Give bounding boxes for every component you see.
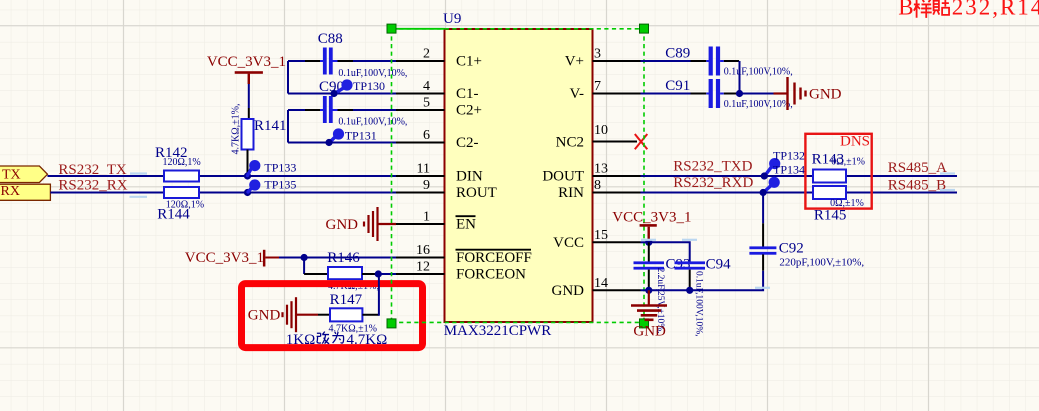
svg-text:C94: C94	[706, 257, 732, 273]
wire row6	[288, 142, 396, 144]
port RX	[0, 184, 50, 200]
wire R141 to DIN row	[247, 150, 249, 177]
svg-text:C1+: C1+	[456, 54, 482, 70]
svg-text:FORCEOFF: FORCEOFF	[456, 250, 532, 266]
wire row13 DOUT to RS485_A	[641, 175, 958, 177]
wire row11 DIN	[48, 175, 397, 177]
op-amp U9 IC body MAX3221CPWR	[445, 29, 593, 322]
svg-text:GND: GND	[248, 307, 281, 323]
junction rail C94	[686, 287, 693, 294]
svg-text:C1-: C1-	[456, 86, 479, 102]
svg-text:GND: GND	[633, 324, 666, 340]
svg-text:GND: GND	[809, 87, 842, 103]
svg-text:U9: U9	[443, 11, 461, 27]
testpoint TP134	[760, 163, 806, 197]
pin 14 GND	[552, 276, 641, 299]
wire row16 to pin16	[279, 257, 396, 259]
junction C89/C91	[736, 90, 743, 97]
capacitor C90	[319, 79, 407, 128]
svg-text:VCC: VCC	[553, 235, 584, 251]
svg-text:0.1uF,100V,10%,: 0.1uF,100V,10%,	[338, 68, 407, 79]
wire row5 left of C90	[288, 109, 305, 111]
wire R146 right to row12	[362, 273, 378, 275]
power port VCC_3V3_1 top-left	[207, 54, 286, 84]
svg-text:220pF,100V,±10%,: 220pF,100V,±10%,	[779, 257, 864, 269]
resistor R141	[231, 104, 287, 155]
svg-text:RS485_A: RS485_A	[888, 160, 947, 176]
resistor R146	[327, 250, 379, 292]
svg-text:TP133: TP133	[264, 161, 296, 175]
svg-text:4: 4	[423, 79, 430, 94]
pin 1 EN (active low)	[396, 210, 476, 233]
svg-text:10: 10	[594, 123, 608, 138]
svg-text:B: B	[898, 0, 913, 19]
svg-text:4.7KΩ,±1%,: 4.7KΩ,±1%,	[231, 104, 242, 155]
svg-text:RS485_B: RS485_B	[888, 178, 946, 194]
wire C93 bottom	[648, 270, 650, 291]
wire row3 V+ to C89	[641, 60, 691, 62]
svg-text:R147: R147	[330, 292, 363, 308]
svg-text:3: 3	[594, 47, 601, 62]
svg-text:12: 12	[416, 260, 430, 275]
wire GND to R147	[318, 314, 330, 316]
svg-text:GND: GND	[326, 217, 359, 233]
wire RIN drop to C92	[762, 193, 764, 224]
svg-text:TX: TX	[2, 167, 21, 182]
pin 5 C2+	[396, 96, 482, 119]
junction VCC/C93	[645, 239, 652, 246]
svg-text:VCC_3V3_1: VCC_3V3_1	[207, 54, 286, 70]
wire row3 right of C89 + corner down	[720, 60, 724, 62]
svg-text:0Ω,±1%: 0Ω,±1%	[831, 157, 865, 168]
red annotation box around R147	[242, 284, 423, 348]
svg-text:ROUT: ROUT	[456, 185, 497, 201]
wire vertical C88 loop	[287, 61, 289, 94]
pin 4 C1-	[396, 79, 479, 102]
svg-text:R141: R141	[254, 118, 287, 134]
annotation text 1KΩ改为4.7KΩ	[286, 332, 387, 348]
svg-text:R145: R145	[814, 208, 847, 224]
svg-text:GND: GND	[552, 283, 585, 299]
svg-text:C88: C88	[318, 31, 343, 47]
capacitor C92	[749, 241, 864, 269]
svg-text:NC2: NC2	[556, 135, 584, 151]
wire row2 left of C88	[288, 60, 305, 62]
junction row16	[301, 254, 308, 261]
svg-text:8: 8	[594, 178, 601, 193]
svg-text:9: 9	[423, 178, 430, 193]
solid green segment top-left	[392, 28, 445, 30]
svg-text:V+: V+	[565, 54, 584, 70]
svg-text:5: 5	[423, 96, 430, 111]
ground symbol at pin 1	[326, 207, 397, 241]
selection handle top-right	[640, 24, 649, 33]
DNS red box	[805, 134, 871, 209]
svg-text:C91: C91	[665, 78, 690, 94]
compile marks (light blue)	[130, 174, 956, 288]
svg-text:TP132: TP132	[773, 149, 805, 163]
selection handle bottom-left	[387, 319, 396, 328]
svg-text:RX: RX	[1, 184, 20, 199]
hand-drawn CJK 样	[914, 0, 932, 18]
svg-text:MAX3221CPWR: MAX3221CPWR	[444, 323, 552, 339]
svg-text:0.1uF,100V,10%,: 0.1uF,100V,10%,	[724, 67, 793, 78]
svg-text:FORCEON: FORCEON	[456, 267, 526, 283]
svg-text:0.1uF,100V,10%,: 0.1uF,100V,10%,	[724, 99, 793, 110]
wire R147 right up to row12	[362, 314, 379, 316]
wire VCC to R141	[248, 74, 250, 84]
resistor R142	[155, 145, 201, 182]
svg-text:15: 15	[594, 228, 608, 243]
svg-text:C89: C89	[665, 46, 690, 62]
pin 8 RIN	[558, 178, 640, 201]
wire vertical C90 loop	[287, 110, 289, 143]
wire C92 bottom to rail	[762, 254, 764, 270]
svg-text:RS232_RX: RS232_RX	[58, 178, 127, 194]
svg-text:TP131: TP131	[345, 129, 377, 143]
svg-text:13: 13	[594, 162, 608, 177]
svg-text:DNS: DNS	[840, 134, 870, 150]
junction TP135/ROUT	[244, 189, 251, 196]
svg-text:120Ω,1%: 120Ω,1%	[163, 157, 201, 168]
svg-text:14: 14	[594, 276, 608, 291]
selection handle bottom-right	[640, 319, 649, 328]
svg-text:TP134: TP134	[773, 163, 805, 177]
pin 10 NC2	[556, 123, 637, 151]
wire row4	[288, 93, 396, 95]
wire pin15 to junction	[641, 241, 649, 243]
resistor R145	[813, 186, 864, 224]
pin 12 FORCEON	[396, 260, 526, 283]
pin 6 C2-	[396, 128, 479, 151]
svg-text:C2-: C2-	[456, 135, 479, 151]
svg-text:TP130: TP130	[353, 79, 385, 93]
svg-text:1: 1	[423, 210, 430, 225]
testpoint TP133	[248, 160, 297, 176]
pin 16 FORCEOFF (active low)	[396, 243, 532, 266]
testpoint TP130	[330, 79, 385, 97]
svg-text:C93: C93	[666, 257, 691, 273]
capacitor C89	[665, 46, 792, 78]
wire row7 V- to C91	[641, 93, 691, 95]
pin 13 DOUT	[542, 162, 640, 185]
svg-text:2: 2	[423, 47, 430, 62]
svg-text:1KΩ: 1KΩ	[286, 332, 315, 348]
pin 7 V-	[570, 79, 641, 102]
selection handle top-left	[387, 24, 396, 33]
pin 15 VCC	[553, 228, 640, 251]
svg-text:C92: C92	[779, 241, 804, 257]
svg-text:R144: R144	[157, 207, 190, 223]
pin 2 C1+	[396, 47, 482, 70]
port TX	[0, 166, 48, 183]
testpoint TP132	[761, 149, 805, 180]
ground symbol at R147	[248, 297, 318, 332]
resistor R144	[157, 187, 204, 223]
svg-text:C2+: C2+	[456, 103, 482, 119]
wire row2 right of C88	[332, 60, 338, 62]
wire VCC stub row16	[265, 257, 279, 259]
svg-text:RIN: RIN	[558, 185, 584, 201]
svg-text:0.1uF,100V,10%,: 0.1uF,100V,10%,	[694, 271, 704, 337]
hand-drawn CJK 贴	[933, 0, 949, 15]
capacitor C94	[675, 257, 732, 337]
svg-text:16: 16	[416, 243, 430, 258]
svg-text:R146: R146	[327, 250, 360, 266]
pin 3 V+	[565, 47, 641, 70]
svg-text:TP135: TP135	[264, 177, 296, 191]
pin 9 ROUT	[396, 178, 497, 201]
no-connect X on pin 10	[635, 134, 648, 149]
resistor R147	[329, 292, 377, 335]
hand-drawn CJK 改	[317, 332, 330, 344]
svg-text:VCC_3V3_1: VCC_3V3_1	[185, 250, 264, 266]
wire C93 top	[648, 242, 650, 261]
wire row5 right of C90	[332, 109, 338, 111]
wire VCC drop to R146	[303, 258, 305, 275]
wire row7 right of C91 to GND	[720, 93, 724, 95]
junction R141/DIN	[244, 172, 251, 179]
junction row12	[375, 270, 382, 277]
svg-text:11: 11	[417, 162, 430, 177]
svg-text:DIN: DIN	[456, 169, 483, 185]
wire top rail to C94	[649, 242, 690, 261]
junction rail C93	[645, 287, 652, 294]
ground symbol right of C91	[774, 77, 842, 110]
power port VCC_3V3_1 bottom-mid	[612, 210, 691, 243]
svg-text:7: 7	[594, 79, 601, 94]
svg-text:232,R14: 232,R14	[952, 0, 1039, 19]
svg-text:DOUT: DOUT	[542, 169, 584, 185]
svg-text:V-: V-	[570, 86, 584, 102]
svg-text:VCC_3V3_1: VCC_3V3_1	[612, 210, 691, 226]
capacitor C91	[665, 78, 792, 110]
svg-text:RS232_RXD: RS232_RXD	[673, 175, 753, 191]
wire row8 RIN to RS485_B	[641, 192, 958, 194]
pin 11 DIN	[396, 162, 483, 185]
ground symbol bottom-mid	[631, 290, 667, 339]
testpoint TP131	[325, 128, 376, 146]
svg-text:RS232_TXD: RS232_TXD	[673, 159, 752, 175]
capacitor C88	[318, 31, 408, 79]
hand-drawn CJK 为	[332, 332, 343, 343]
svg-text:EN: EN	[456, 217, 476, 233]
svg-text:4.7KΩ: 4.7KΩ	[347, 332, 388, 348]
resistor R143	[812, 152, 865, 183]
capacitor C93	[634, 257, 691, 334]
svg-text:6: 6	[423, 128, 430, 143]
power port VCC_3V3_1 bottom-left	[185, 250, 266, 267]
top-right red annotation text B样贴232,R1	[898, 0, 1039, 19]
wire C94 bottom	[689, 270, 691, 291]
testpoint TP135	[248, 177, 296, 192]
svg-text:0.1uF,100V,10%,: 0.1uF,100V,10%,	[338, 117, 407, 128]
green selection rectangle dashed	[392, 29, 645, 323]
wire row9 ROUT	[50, 192, 396, 194]
